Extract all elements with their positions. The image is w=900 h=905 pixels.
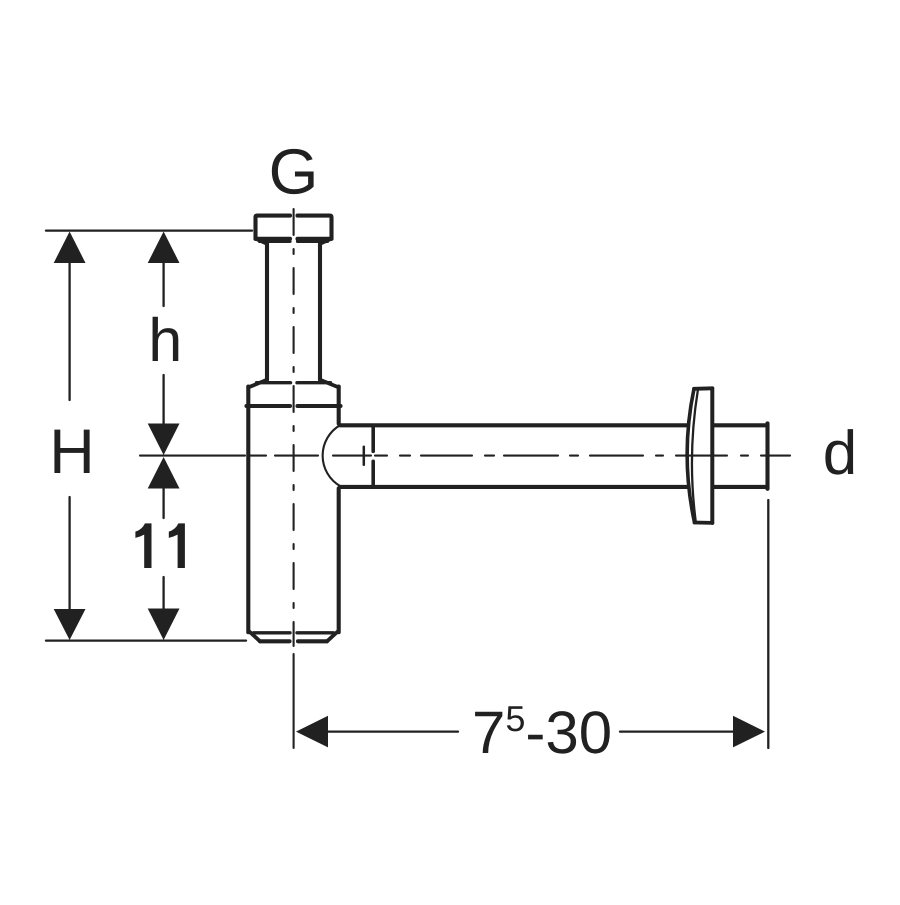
dimension 11 <box>148 457 180 640</box>
dimension H <box>54 232 86 641</box>
inlet pipe <box>267 244 320 380</box>
pipe inner rounded cap <box>323 425 341 486</box>
label 7 <box>475 712 502 753</box>
pipe end <box>765 423 769 488</box>
vertical centerline <box>293 209 295 748</box>
label G <box>272 149 314 194</box>
wall rosette <box>687 388 712 523</box>
top reference line <box>46 229 252 231</box>
outlet pipe <box>340 425 767 487</box>
dimension h <box>148 232 180 456</box>
label 11 <box>135 523 185 568</box>
extension line right <box>767 500 769 748</box>
union nut <box>247 380 341 406</box>
bottom reference line <box>46 639 246 641</box>
label -30 <box>528 711 610 753</box>
horizontal centerline <box>140 455 790 457</box>
cap center mark <box>363 447 366 465</box>
label h <box>153 317 179 361</box>
inlet nut (top flange) <box>256 216 332 244</box>
dimension 75-30 <box>296 716 765 748</box>
label d <box>825 429 853 475</box>
pipe joint line <box>371 427 375 485</box>
trap body cup <box>248 387 338 642</box>
label H <box>54 430 89 473</box>
label 5 <box>507 706 524 731</box>
